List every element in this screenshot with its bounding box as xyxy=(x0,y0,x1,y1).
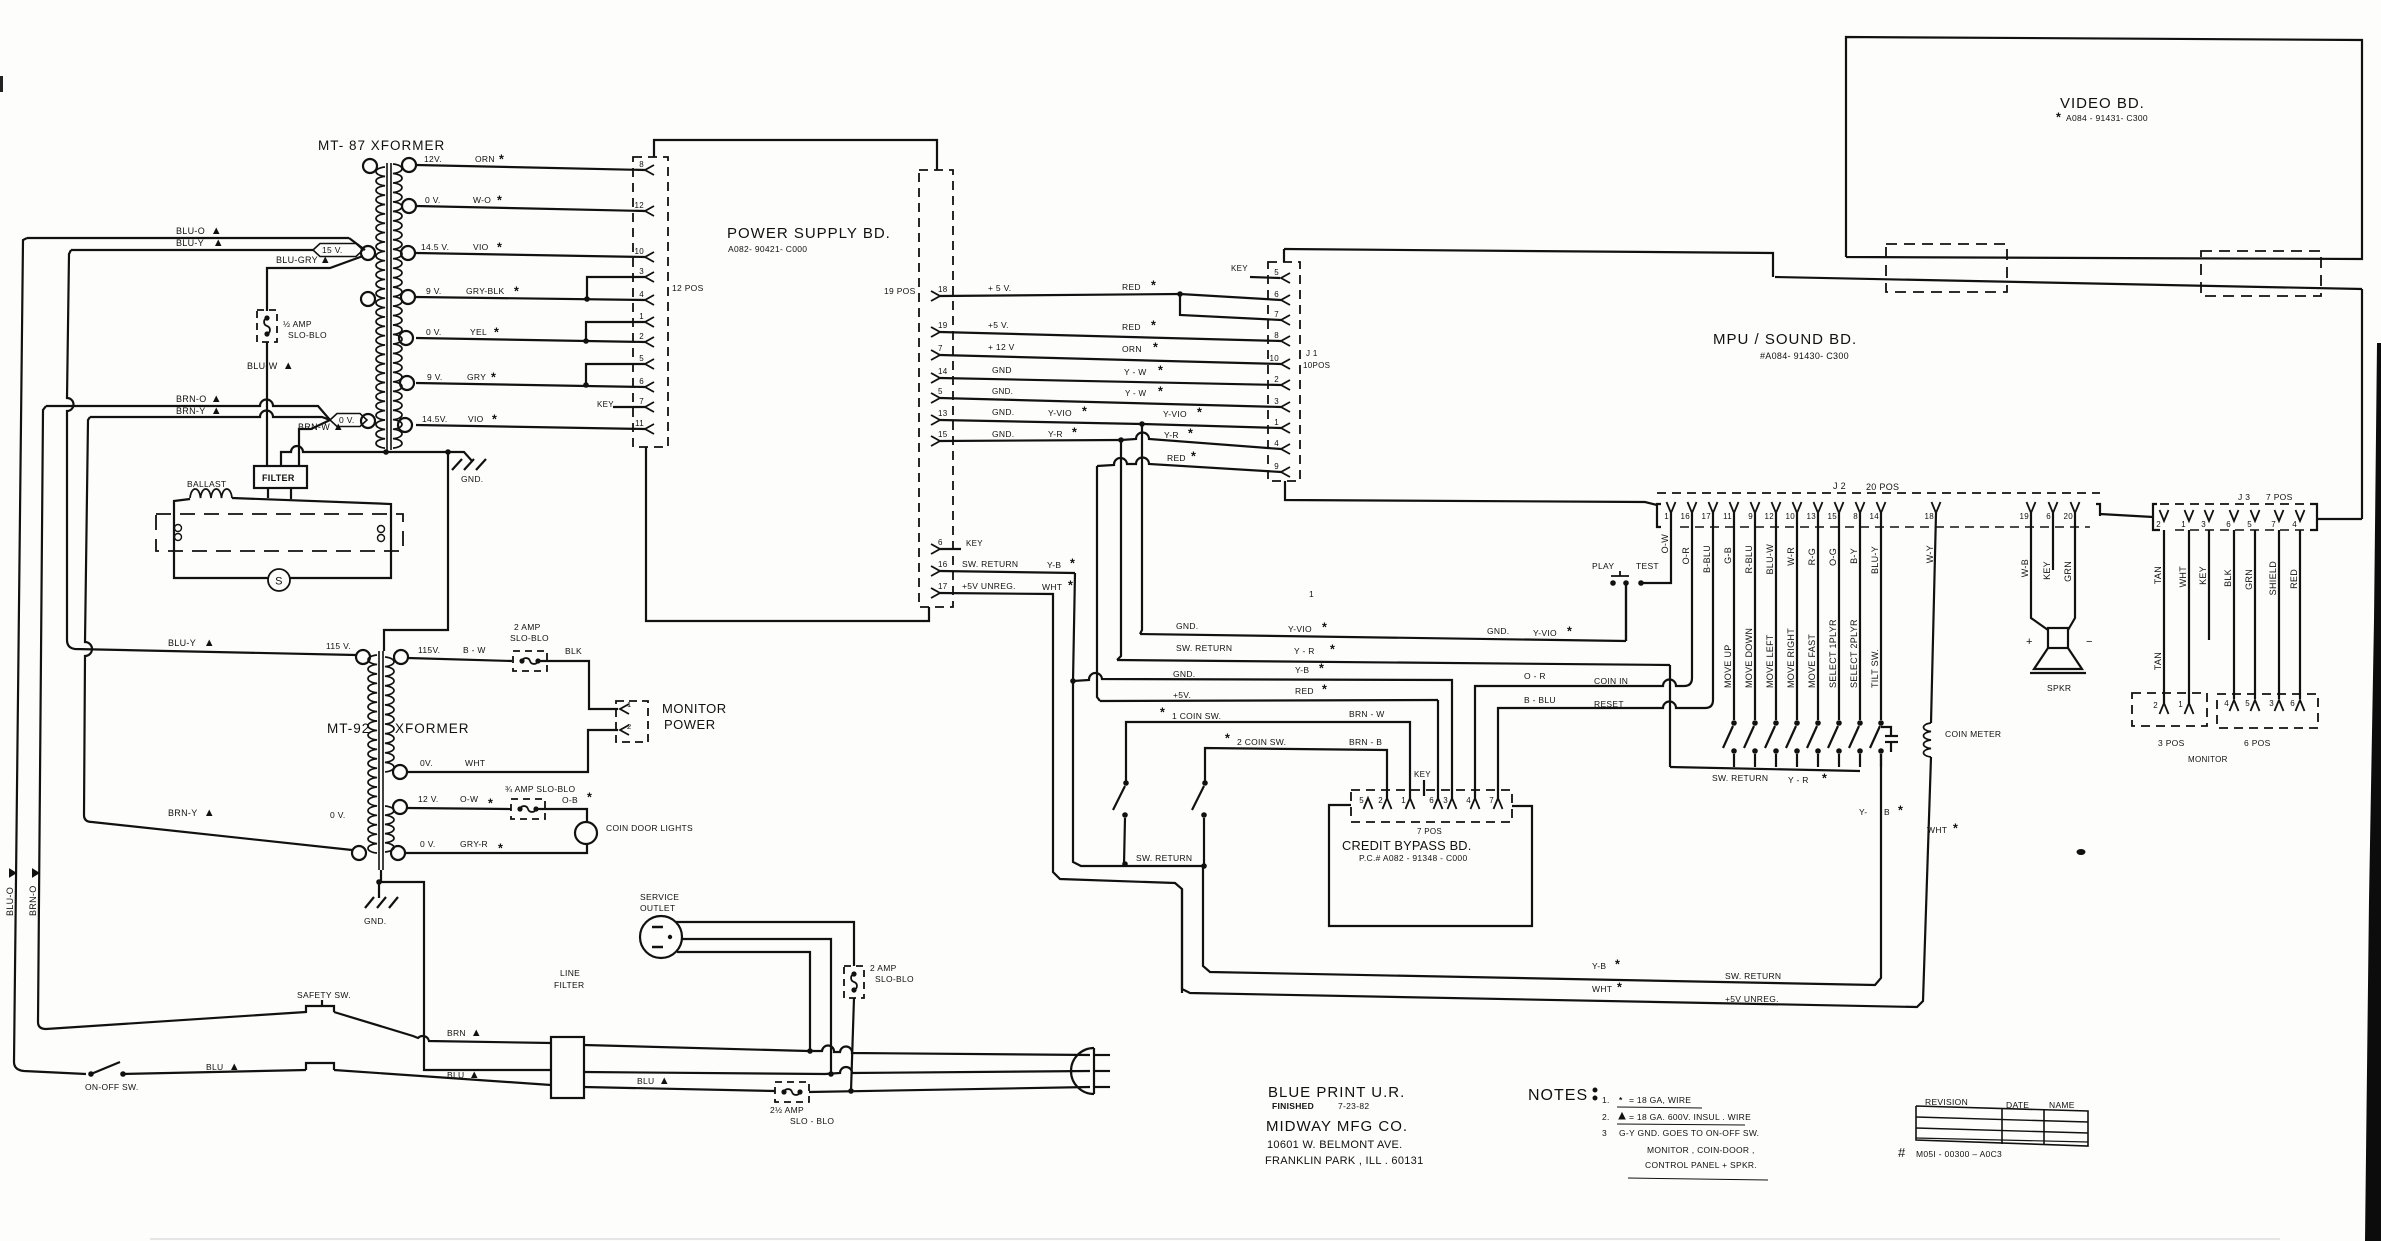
svg-text:*: * xyxy=(1898,804,1903,818)
svg-text:1: 1 xyxy=(639,312,644,321)
svg-text:10: 10 xyxy=(1270,354,1280,363)
fuse F6 2.5 AMP SLO-BLO xyxy=(781,1089,786,1094)
svg-text:2 AMP: 2 AMP xyxy=(870,963,897,973)
svg-text:MONITOR: MONITOR xyxy=(2188,755,2228,764)
svg-text:0 V.: 0 V. xyxy=(339,415,355,425)
fuse F3 2AMP SLO-BLO xyxy=(519,658,524,663)
svg-text:*: * xyxy=(587,791,592,805)
svg-text:J 1: J 1 xyxy=(1306,349,1318,358)
svg-text:*: * xyxy=(1068,579,1073,593)
svg-text:¾ AMP SLO-BLO: ¾ AMP SLO-BLO xyxy=(505,784,575,794)
svg-text:5: 5 xyxy=(1359,796,1364,805)
svg-text:6: 6 xyxy=(2226,520,2231,529)
connector P1 pins 8/12/10/3/4/1/2/5/6/7/11 xyxy=(645,165,654,175)
svg-text:GND.: GND. xyxy=(992,407,1014,417)
svg-text:= 18 GA. 600V. INSUL . WIRE: = 18 GA. 600V. INSUL . WIRE xyxy=(1629,1112,1751,1122)
connector monitor 3POS shell xyxy=(2132,693,2207,726)
bus +5V RED to credit board xyxy=(1097,466,1100,701)
svg-text:15: 15 xyxy=(1828,512,1838,521)
svg-text:RED: RED xyxy=(1295,686,1314,696)
svg-text:RED: RED xyxy=(1167,453,1186,463)
wire SW RETURN Y-B pin16 xyxy=(940,571,1075,573)
svg-text:BLU: BLU xyxy=(637,1076,654,1086)
starter S circle xyxy=(268,569,290,591)
svg-text:ON-OFF SW.: ON-OFF SW. xyxy=(85,1082,139,1092)
svg-text:W-O: W-O xyxy=(473,195,491,205)
wire WHT +5V unreg return xyxy=(1182,757,1931,1007)
svg-text:*: * xyxy=(494,326,499,340)
wire W-B J2 pin19 to speaker xyxy=(2031,513,2048,630)
svg-text:W-Y: W-Y xyxy=(1925,545,1935,563)
svg-text:*: * xyxy=(1153,341,1158,355)
wires J2 to control panel switches xyxy=(1733,513,1735,720)
svg-text:BLU-O: BLU-O xyxy=(176,226,205,236)
svg-text:BLK: BLK xyxy=(565,646,582,656)
wire 0V YEL to pin 2 xyxy=(416,338,645,342)
svg-text:*: * xyxy=(1082,405,1087,419)
svg-text:8: 8 xyxy=(1274,331,1279,340)
svg-text:10: 10 xyxy=(1786,512,1796,521)
svg-text:Y-VIO: Y-VIO xyxy=(1048,408,1072,418)
svg-text:TAN: TAN xyxy=(2153,652,2163,670)
svg-text:YEL: YEL xyxy=(470,327,487,337)
svg-text:GND.: GND. xyxy=(992,429,1014,439)
connector monitor 6POS pins 4 5 3 6 xyxy=(2230,700,2239,711)
svg-text:+ 12 V: + 12 V xyxy=(988,342,1015,352)
svg-text:SLO-BLO: SLO-BLO xyxy=(288,330,327,340)
wire +5V RED pin19 to J1 pin8 xyxy=(940,332,1281,341)
svg-text:P.C.# A082 - 91348 - C000: P.C.# A082 - 91348 - C000 xyxy=(1359,853,1467,863)
svg-text:GRN: GRN xyxy=(2244,569,2254,590)
svg-text:2: 2 xyxy=(2153,701,2158,710)
svg-text:11: 11 xyxy=(1723,512,1732,521)
svg-text:9 V.: 9 V. xyxy=(427,372,443,382)
svg-text:*: * xyxy=(1188,427,1193,441)
svg-text:WHT: WHT xyxy=(465,758,485,768)
svg-text:6: 6 xyxy=(2290,699,2295,708)
svg-text:SW. RETURN: SW. RETURN xyxy=(1136,853,1192,863)
svg-text:8: 8 xyxy=(1853,512,1858,521)
svg-text:RED: RED xyxy=(1122,322,1141,332)
wire BLU-O left vertical to on-off switch xyxy=(14,238,86,1074)
svg-text:10601 W. BELMONT AVE.: 10601 W. BELMONT AVE. xyxy=(1267,1139,1403,1151)
svg-text:12V.: 12V. xyxy=(424,154,442,164)
svg-text:FILTER: FILTER xyxy=(262,473,295,483)
svg-text:O-W: O-W xyxy=(1660,534,1670,554)
bracket P1 top to 19POS shell xyxy=(654,140,937,170)
svg-text:+5V UNREG.: +5V UNREG. xyxy=(1725,994,1779,1004)
wire RED to J1 pin9 xyxy=(1097,458,1281,472)
svg-text:12: 12 xyxy=(1765,512,1775,521)
wire BLK fuse F3 to monitor power pin 1 xyxy=(538,661,618,709)
svg-text:*: * xyxy=(1615,958,1620,972)
svg-text:KEY: KEY xyxy=(597,400,614,409)
wire BRN-W flag to line filter xyxy=(299,420,330,466)
svg-text:S: S xyxy=(275,576,283,588)
svg-text:*: * xyxy=(498,842,503,856)
svg-text:*: * xyxy=(499,153,504,167)
svg-text:Y-VIO: Y-VIO xyxy=(1163,409,1187,419)
svg-text:7: 7 xyxy=(1489,796,1494,805)
wire BLU-Y to T1 primary 15V flag xyxy=(71,249,313,251)
svg-text:R-BLU: R-BLU xyxy=(1744,545,1754,574)
svg-text:17: 17 xyxy=(938,582,948,591)
svg-text:GND.: GND. xyxy=(1176,621,1198,631)
svg-text:2: 2 xyxy=(627,722,631,731)
lamp coin door lights xyxy=(575,822,597,844)
svg-text:DATE: DATE xyxy=(2006,1100,2029,1110)
svg-text:MOVE LEFT: MOVE LEFT xyxy=(1765,634,1775,688)
svg-text:XFORMER: XFORMER xyxy=(395,721,470,736)
svg-text:9: 9 xyxy=(1748,512,1753,521)
svg-text:4: 4 xyxy=(2224,699,2229,708)
connector J2 pins xyxy=(1667,502,1676,513)
svg-text:+ 5 V.: + 5 V. xyxy=(988,283,1011,293)
svg-text:*: * xyxy=(491,371,496,385)
svg-text:O-R: O-R xyxy=(1681,547,1691,565)
wire 2 COIN SW BRN-B to credit pin2 xyxy=(1205,748,1387,798)
svg-text:B-Y: B-Y xyxy=(1849,548,1859,564)
line filter box xyxy=(551,1037,584,1098)
svg-text:Y-VIO: Y-VIO xyxy=(1533,628,1557,638)
svg-text:+5V UNREG.: +5V UNREG. xyxy=(962,581,1016,591)
svg-text:ORN: ORN xyxy=(1122,344,1142,354)
svg-text:+: + xyxy=(2026,636,2033,648)
svg-text:6: 6 xyxy=(639,377,644,386)
svg-text:NAME: NAME xyxy=(2049,1100,2075,1110)
svg-text:SW. RETURN: SW. RETURN xyxy=(1712,773,1768,783)
wire BLU-W fuse F1 to line filter xyxy=(266,342,268,466)
svg-text:*: * xyxy=(1953,822,1958,836)
svg-text:9: 9 xyxy=(1274,462,1279,471)
transformer T2 primary terminals xyxy=(356,650,370,664)
svg-text:*: * xyxy=(1158,385,1163,399)
wire BLU-GRY from flag to fuse F1 xyxy=(267,256,363,311)
svg-text:KEY: KEY xyxy=(2198,566,2208,585)
wire service outlet top to fuse F5 xyxy=(676,922,854,966)
svg-text:1: 1 xyxy=(2181,520,2186,529)
svg-text:7 POS: 7 POS xyxy=(2266,492,2293,502)
connector P2 19POS dashed shell xyxy=(919,170,953,607)
svg-text:19: 19 xyxy=(2020,512,2030,521)
svg-text:Y - R: Y - R xyxy=(1294,646,1315,656)
svg-text:*: * xyxy=(1330,643,1335,657)
wire 115V B-W to fuse F3 xyxy=(408,658,512,661)
svg-text:BLU-W: BLU-W xyxy=(247,361,278,371)
wire O-R COIN IN to J2 pin16 xyxy=(1475,513,1692,798)
svg-text:BRN-W: BRN-W xyxy=(298,422,330,432)
svg-text:GND: GND xyxy=(992,365,1012,375)
switch ON-OFF xyxy=(88,1071,94,1077)
svg-text:= 18 GA, WIRE: = 18 GA, WIRE xyxy=(1629,1095,1691,1105)
wire GND Y-W pin14 to J1 pin2 xyxy=(940,378,1281,385)
svg-text:13: 13 xyxy=(938,409,948,418)
svg-text:3: 3 xyxy=(1443,796,1448,805)
connector J3 pins 2/1/3/6/5/7/4 xyxy=(2160,510,2169,521)
svg-text:LINE: LINE xyxy=(560,968,580,978)
svg-text:MOVE FAST: MOVE FAST xyxy=(1807,634,1817,688)
svg-text:J 2: J 2 xyxy=(1833,481,1846,491)
connector P2 pins 18/19/7/14/5/13/15/6/16/17 xyxy=(931,291,940,301)
svg-text:*: * xyxy=(1322,683,1327,697)
switches MOVE UP/DOWN/LEFT/RIGHT/FAST SELECT1/2 TILT xyxy=(1731,720,1737,726)
svg-text:0 V.: 0 V. xyxy=(420,839,436,849)
transformer T1 primary terminals xyxy=(363,159,377,173)
svg-text:2½ AMP: 2½ AMP xyxy=(770,1105,804,1115)
ground symbol GND near T1 xyxy=(452,459,462,470)
svg-text:O-G: O-G xyxy=(1828,548,1838,566)
svg-text:SAFETY SW.: SAFETY SW. xyxy=(297,990,351,1000)
svg-text:SELECT 1PLYR: SELECT 1PLYR xyxy=(1828,619,1838,688)
wire service outlet middle xyxy=(682,939,831,1074)
svg-text:B-BLU: B-BLU xyxy=(1702,545,1712,573)
board MPU/SOUND right edge xyxy=(2361,289,2363,519)
svg-text:Y-B: Y-B xyxy=(1295,665,1309,675)
transformer T2 secondary winding upper xyxy=(385,657,394,772)
svg-text:0 V.: 0 V. xyxy=(426,327,442,337)
svg-text:7: 7 xyxy=(639,397,644,406)
wire 0V W-O to pin 12 xyxy=(416,206,645,211)
svg-text:POWER SUPPLY BD.: POWER SUPPLY BD. xyxy=(727,225,891,242)
svg-text:B - W: B - W xyxy=(463,645,486,655)
svg-text:15 V.: 15 V. xyxy=(322,245,343,255)
svg-text:*: * xyxy=(1158,364,1163,378)
svg-text:6: 6 xyxy=(2046,512,2051,521)
svg-text:W-B: W-B xyxy=(2020,559,2030,577)
svg-text:SELECT 2PLYR: SELECT 2PLYR xyxy=(1849,619,1859,688)
svg-text:WHT: WHT xyxy=(1042,582,1062,592)
svg-text:Y-B: Y-B xyxy=(1047,560,1061,570)
svg-text:W-R: W-R xyxy=(1786,547,1796,566)
svg-text:BLU: BLU xyxy=(206,1062,223,1072)
transformer T2 secondary winding lower xyxy=(385,806,394,852)
service outlet xyxy=(640,916,682,958)
svg-text:TEST: TEST xyxy=(1636,561,1659,571)
svg-text:*: * xyxy=(497,194,502,208)
svg-text:O-B: O-B xyxy=(562,795,578,805)
svg-text:BRN - B: BRN - B xyxy=(1349,737,1382,747)
wire W-Y J2 pin18 to coin meter xyxy=(1931,513,1936,723)
plug AC line cord xyxy=(1071,1048,1094,1094)
svg-text:14.5 V.: 14.5 V. xyxy=(421,242,449,252)
svg-text:18: 18 xyxy=(938,285,948,294)
svg-text:SW. RETURN: SW. RETURN xyxy=(962,559,1018,569)
wire GND Y-VIO pin13 to J1 pin1 xyxy=(940,420,1142,424)
wire 12V O-W to fuse F4 xyxy=(407,808,511,809)
svg-text:VIO: VIO xyxy=(468,414,484,424)
svg-text:M05I - 00300 – A0C3: M05I - 00300 – A0C3 xyxy=(1916,1149,2002,1159)
wire GRN J2 pin20 to speaker xyxy=(2068,513,2075,630)
svg-text:−: − xyxy=(2086,636,2093,648)
wire 14.5V VIO to pin 10 xyxy=(416,253,645,257)
svg-text:Y-VIO: Y-VIO xyxy=(1288,624,1312,634)
svg-text:BRN-Y: BRN-Y xyxy=(176,406,206,416)
ground bus from filter to GND xyxy=(281,446,472,466)
tilt switch weight contact xyxy=(1881,727,1891,735)
svg-text:*: * xyxy=(1160,706,1165,720)
wire service outlet bottom xyxy=(677,952,810,1051)
svg-text:2 COIN SW.: 2 COIN SW. xyxy=(1237,737,1286,747)
connector monitor power pins 1 2 xyxy=(620,704,629,714)
svg-text:5: 5 xyxy=(2245,699,2250,708)
svg-text:19 POS: 19 POS xyxy=(884,286,916,296)
svg-text:O - R: O - R xyxy=(1524,671,1546,681)
svg-text:13: 13 xyxy=(1807,512,1817,521)
wire 0V GRY-R to coin door lights xyxy=(405,844,587,853)
stub pin 1 to YEL junction xyxy=(586,322,645,341)
wire BLU fuse F6 to plug xyxy=(809,1087,1090,1092)
svg-text:1 COIN SW.: 1 COIN SW. xyxy=(1172,711,1221,721)
svg-text:SPKR: SPKR xyxy=(2047,683,2071,693)
svg-text:BRN-O: BRN-O xyxy=(176,394,207,404)
svg-text:WHT: WHT xyxy=(1592,984,1612,994)
svg-text:8: 8 xyxy=(639,160,644,169)
svg-text:WHT: WHT xyxy=(1927,825,1947,835)
svg-text:BLUE PRINT U.R.: BLUE PRINT U.R. xyxy=(1268,1084,1405,1101)
svg-text:5: 5 xyxy=(938,387,943,396)
svg-text:*: * xyxy=(1319,662,1324,676)
svg-text:SHIELD: SHIELD xyxy=(2268,561,2278,596)
svg-text:TILT SW.: TILT SW. xyxy=(1870,649,1880,688)
scan artifact right black bar xyxy=(2365,343,2381,1241)
svg-text:OUTLET: OUTLET xyxy=(640,903,675,913)
svg-text:*: * xyxy=(492,413,497,427)
wire O-B fuse F4 to coin door lights xyxy=(536,809,587,822)
svg-text:2: 2 xyxy=(1378,796,1383,805)
wire BRN-Y to T1 primary 0V flag xyxy=(90,411,330,421)
speaker SPKR xyxy=(2048,628,2068,648)
svg-text:VIDEO BD.: VIDEO BD. xyxy=(2060,95,2145,112)
svg-text:*: * xyxy=(1072,426,1077,440)
svg-text:20 POS: 20 POS xyxy=(1866,482,1899,492)
svg-text:ORN: ORN xyxy=(475,154,495,164)
connector monitor 6POS shell xyxy=(2217,694,2318,728)
svg-text:*: * xyxy=(1197,406,1202,420)
svg-text:BLU-Y: BLU-Y xyxy=(168,638,196,648)
fuse F4 3/4 AMP SLO-BLO xyxy=(517,806,522,811)
wire BLU-O to T1 primary xyxy=(27,237,349,239)
svg-text:*: * xyxy=(1822,772,1827,786)
svg-text:BRN-O: BRN-O xyxy=(28,886,38,917)
ground symbol GND under T2 xyxy=(365,897,374,908)
fuse F1 1/2 AMP SLO-BLO xyxy=(264,315,269,320)
svg-text:B: B xyxy=(1884,807,1890,817)
wire BRN safety to line filter xyxy=(334,1012,551,1043)
wire Y-B tilt to sw return bus xyxy=(1203,754,1881,985)
transformer T1 primary winding xyxy=(376,167,385,448)
svg-text:6: 6 xyxy=(1274,290,1279,299)
svg-text:20: 20 xyxy=(2064,512,2074,521)
svg-text:B - BLU: B - BLU xyxy=(1524,695,1556,705)
svg-text:COIN IN: COIN IN xyxy=(1594,676,1628,686)
bracket J1 top xyxy=(1283,249,1285,262)
svg-text:4: 4 xyxy=(1466,796,1471,805)
wire +12V ORN pin7 to J1 pin10 xyxy=(940,355,1281,364)
transformer T1 secondary terminals xyxy=(402,158,416,172)
svg-text:J 3: J 3 xyxy=(2238,492,2250,502)
svg-text:4: 4 xyxy=(1274,439,1279,448)
wire 9V GRY to pin 6 xyxy=(416,383,645,387)
wire BLU line filter to fuse F6 xyxy=(584,1087,775,1091)
connector credit pins 5/2/1/6/3/4/7 xyxy=(1364,798,1373,809)
svg-text:*: * xyxy=(1225,732,1230,746)
wire KEY J2 pin6 stub xyxy=(2052,513,2054,570)
svg-text:19: 19 xyxy=(938,321,948,330)
svg-text:BLU-W: BLU-W xyxy=(1765,544,1775,575)
svg-text:*: * xyxy=(1322,621,1327,635)
svg-text:Y-B: Y-B xyxy=(1592,961,1606,971)
svg-text:1: 1 xyxy=(2178,700,2183,709)
svg-text:6: 6 xyxy=(1429,796,1434,805)
bus SW RETURN Y-R to J2 switches xyxy=(1117,440,1121,660)
transformer T1 core xyxy=(386,163,388,450)
bracket P1 bottom to 19POS shell xyxy=(646,447,929,621)
svg-text:10: 10 xyxy=(635,247,645,256)
svg-text:3: 3 xyxy=(639,267,644,276)
svg-text:*: * xyxy=(514,285,519,299)
svg-text:+5 V.: +5 V. xyxy=(988,320,1009,330)
svg-text:14: 14 xyxy=(938,367,948,376)
svg-text:5: 5 xyxy=(1274,268,1279,277)
svg-text:O-W: O-W xyxy=(460,794,478,804)
svg-text:1: 1 xyxy=(1309,589,1314,599)
svg-text:RED: RED xyxy=(1122,282,1141,292)
wire BLU-Y left vertical to T2 primary xyxy=(67,250,356,655)
svg-text:MONITOR: MONITOR xyxy=(662,701,727,716)
svg-text:COIN DOOR LIGHTS: COIN DOOR LIGHTS xyxy=(606,823,693,833)
wire +5V RED pin18 to J1 pin6 and pin7 xyxy=(940,294,1180,296)
svg-text:16: 16 xyxy=(938,560,948,569)
svg-text:2 AMP: 2 AMP xyxy=(514,622,541,632)
connector P1 12POS dashed shell xyxy=(633,157,668,447)
svg-text:Y-: Y- xyxy=(1859,807,1867,817)
svg-text:7 POS: 7 POS xyxy=(1417,827,1442,836)
svg-text:CONTROL PANEL + SPKR.: CONTROL PANEL + SPKR. xyxy=(1645,1160,1757,1170)
wire 14.5V VIO to pin 11 xyxy=(416,425,645,429)
wire +5V UNREG WHT pin17 xyxy=(940,593,1182,993)
ballast coil xyxy=(190,489,232,498)
transformer T2 primary winding xyxy=(368,655,377,853)
svg-text:MT- 87 XFORMER: MT- 87 XFORMER xyxy=(318,138,445,153)
bus switch return to switches xyxy=(1669,665,1671,767)
bus GND Y-B credit board xyxy=(1070,678,1076,684)
coin meter coil xyxy=(1924,723,1932,757)
svg-text:KEY: KEY xyxy=(2042,561,2052,580)
svg-text:G-B: G-B xyxy=(1723,547,1733,564)
wire 12V ORN to pin 8 xyxy=(416,165,645,170)
fluorescent tube dashed outline xyxy=(156,514,403,551)
svg-text:BLU-Y: BLU-Y xyxy=(176,238,204,248)
svg-text:115 V.: 115 V. xyxy=(326,641,351,651)
svg-text:G-Y GND. GOES TO ON-OFF SW.: G-Y GND. GOES TO ON-OFF SW. xyxy=(1619,1128,1759,1138)
svg-text:Y - W: Y - W xyxy=(1125,389,1147,398)
svg-text:SLO - BLO: SLO - BLO xyxy=(790,1116,834,1126)
svg-text:*: * xyxy=(488,797,493,811)
stub pin 5 to GRY junction xyxy=(586,364,645,385)
svg-text:GND.: GND. xyxy=(1173,669,1195,679)
bus GND Y-VIO to play/test xyxy=(1140,424,1142,634)
svg-text:SERVICE: SERVICE xyxy=(640,892,679,902)
svg-text:11: 11 xyxy=(635,419,644,428)
svg-text:9 V.: 9 V. xyxy=(426,286,442,296)
svg-text:1: 1 xyxy=(1274,418,1279,427)
svg-text:NOTES: NOTES xyxy=(1528,1087,1588,1104)
wire core ground T1 to T2 xyxy=(384,452,448,651)
connector monitor power shell xyxy=(616,701,648,742)
transformer T1 secondary winding xyxy=(393,164,402,448)
svg-text:Y-R: Y-R xyxy=(1164,430,1179,440)
svg-text:BRN-Y: BRN-Y xyxy=(168,808,198,818)
